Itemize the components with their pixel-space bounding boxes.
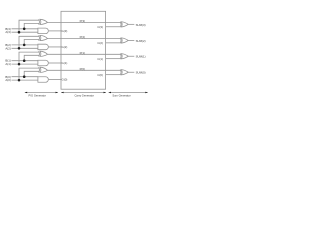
and gate G(0) <box>38 77 48 83</box>
wire B(1) riser to XOR <box>24 55 39 60</box>
wire G(3) into carry box <box>49 30 61 32</box>
svg-text:P(3): P(3) <box>80 19 85 23</box>
xor gate P(0) <box>39 67 48 72</box>
label SUM(2) <box>136 39 146 43</box>
wire A(1) <box>12 63 39 65</box>
wire P(0) across carry box <box>48 69 121 71</box>
label A(0) input <box>5 78 10 82</box>
svg-text:A(2): A(2) <box>5 46 10 50</box>
label B(3) input <box>5 27 10 31</box>
svg-text:C(1): C(1) <box>97 57 103 61</box>
dimension arrow sum generator section <box>108 92 148 94</box>
label P(3) <box>80 19 85 23</box>
label A(3) input <box>5 30 10 34</box>
svg-text:SUM(2): SUM(2) <box>136 39 146 43</box>
label G(2) <box>62 45 68 49</box>
svg-text:P(2): P(2) <box>80 35 85 39</box>
xor gate SUM(0) <box>120 70 128 75</box>
xor gate SUM(1) <box>120 54 128 59</box>
label C(3) <box>97 25 103 29</box>
label C(0) <box>97 73 103 77</box>
svg-text:C(2): C(2) <box>97 41 103 45</box>
svg-text:P/G Generator: P/G Generator <box>28 93 46 97</box>
wire B(3) <box>12 28 39 30</box>
dimension arrow carry generator section <box>61 92 106 94</box>
label B(1) input <box>5 59 10 63</box>
svg-text:P(0): P(0) <box>80 67 85 71</box>
wire B(0) <box>12 76 39 78</box>
svg-text:A(3): A(3) <box>5 30 10 34</box>
wire SUM(2) output <box>128 39 134 41</box>
label P(1) <box>80 51 85 55</box>
wire B(3) riser to XOR <box>24 23 39 28</box>
wire A(3) riser to XOR <box>19 20 40 32</box>
wire C(3) from carry box <box>106 26 121 28</box>
wire A(3) <box>12 31 39 33</box>
svg-text:C(0): C(0) <box>97 73 103 77</box>
wire SUM(3) output <box>128 23 134 25</box>
xor gate P(2) <box>39 35 48 40</box>
wire P(2) across carry box <box>48 38 121 40</box>
label P(2) <box>80 35 85 39</box>
label SUM(1) <box>136 55 146 59</box>
and gate G(3) <box>38 28 48 34</box>
svg-text:Carry Generator: Carry Generator <box>74 93 94 97</box>
wire A(0) riser to XOR <box>19 68 40 80</box>
wire G(0) into carry box <box>49 79 61 81</box>
svg-text:G(1): G(1) <box>62 61 68 65</box>
label SUM(3) <box>136 23 146 27</box>
label A(2) input <box>5 46 10 50</box>
wire SUM(0) output <box>128 71 134 73</box>
svg-text:Sum Generator: Sum Generator <box>112 93 130 97</box>
label G(0) <box>62 78 68 82</box>
xor gate P(1) <box>39 51 48 56</box>
and gate G(2) <box>38 44 48 50</box>
svg-text:SUM(3): SUM(3) <box>136 23 146 27</box>
wire G(2) into carry box <box>49 46 61 48</box>
junction dot on B(1) <box>23 59 26 62</box>
label B(2) input <box>5 43 10 47</box>
wire B(0) riser to XOR <box>24 71 39 76</box>
wire P(3) across carry box <box>48 21 121 23</box>
xor gate SUM(3) <box>120 22 128 27</box>
svg-text:P(1): P(1) <box>80 51 85 55</box>
wire G(1) into carry box <box>49 62 61 64</box>
junction dot on A(0) <box>18 79 21 82</box>
svg-text:G(3): G(3) <box>62 29 68 33</box>
wire A(2) riser to XOR <box>19 36 40 48</box>
label C(2) <box>97 41 103 45</box>
junction dot on A(1) <box>18 63 21 66</box>
label B(0) input <box>5 75 10 79</box>
label A(1) input <box>5 62 10 66</box>
label G(1) <box>62 61 68 65</box>
wire B(1) <box>12 60 39 62</box>
wire A(2) <box>12 47 39 49</box>
xor gate P(3) <box>39 19 48 24</box>
svg-text:G(0): G(0) <box>62 78 68 82</box>
svg-text:C(3): C(3) <box>97 25 103 29</box>
svg-text:G(2): G(2) <box>62 45 68 49</box>
junction dot on B(0) <box>23 75 26 78</box>
svg-text:SUM(0): SUM(0) <box>136 71 146 75</box>
wire SUM(1) output <box>128 55 134 57</box>
junction dot on B(3) <box>23 28 26 31</box>
svg-text:A(1): A(1) <box>5 62 10 66</box>
label P/G Generator <box>28 93 46 97</box>
junction dot on A(3) <box>18 31 21 34</box>
label SUM(0) <box>136 71 146 75</box>
label P(0) <box>80 67 85 71</box>
label C(1) <box>97 57 103 61</box>
wire B(2) <box>12 44 39 46</box>
xor gate SUM(2) <box>120 38 128 43</box>
junction dot on B(2) <box>23 44 26 47</box>
wire C(0) from carry box <box>106 74 121 76</box>
carry generator box U1 <box>61 11 106 89</box>
wire P(1) across carry box <box>48 53 121 55</box>
and gate G(1) <box>38 60 48 66</box>
junction dot on A(2) <box>18 47 21 50</box>
wire A(0) <box>12 79 39 81</box>
wire C(1) from carry box <box>106 58 121 60</box>
wire A(1) riser to XOR <box>19 52 40 64</box>
wire C(2) from carry box <box>106 42 121 44</box>
label G(3) <box>62 29 68 33</box>
svg-text:SUM(1): SUM(1) <box>136 55 146 59</box>
dimension arrow P/G generator section <box>25 92 59 94</box>
label Carry Generator <box>74 93 94 97</box>
label Sum Generator <box>112 93 130 97</box>
wire B(2) riser to XOR <box>24 40 39 45</box>
svg-text:A(0): A(0) <box>5 78 10 82</box>
